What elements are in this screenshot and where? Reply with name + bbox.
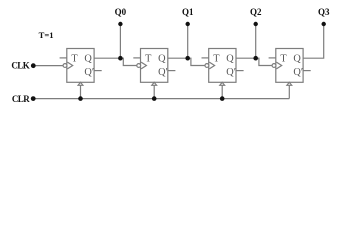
svg-text:Q: Q [84, 53, 92, 64]
CLR rail wire [36, 98, 290, 100]
svg-text:T: T [280, 53, 287, 64]
U3 clear triangle [220, 82, 225, 85]
node Q2 junction dot [253, 56, 258, 61]
wire Q1 output to U3 clock [168, 58, 205, 65]
svg-text:Q: Q [226, 53, 234, 64]
node CLR-U1 junction dot [78, 96, 83, 101]
U4 clear branch wire (corner from rail) [288, 85, 290, 98]
svg-text:CLR: CLR [12, 94, 30, 104]
U3 clock bubble [205, 64, 209, 68]
U2 Q' stub [168, 70, 176, 72]
U3 clear branch wire [221, 85, 223, 98]
svg-text:T: T [213, 53, 220, 64]
flip-flop U4 box [276, 49, 303, 83]
U2 clear triangle [152, 82, 157, 85]
node Q2 terminal dot [254, 22, 258, 26]
U1 clear triangle [78, 82, 83, 85]
wire Q0 output to U2 clock [94, 58, 137, 65]
svg-text:T=1: T=1 [39, 30, 54, 40]
U1 clock bubble [63, 64, 67, 68]
svg-text:CLK: CLK [11, 60, 29, 70]
U4 clock bubble [272, 64, 276, 68]
U3 T input stub [202, 57, 209, 59]
svg-text:Q: Q [293, 53, 301, 64]
CLK input wire [36, 65, 64, 67]
U1 clock edge triangle [67, 62, 72, 69]
U4 clock edge triangle [276, 62, 281, 69]
node Q1 terminal dot [186, 22, 190, 26]
svg-text:Q0: Q0 [115, 7, 127, 17]
U4 clear triangle [287, 82, 292, 85]
CLR source bullet [31, 96, 36, 101]
node Q3 terminal dot [322, 22, 326, 26]
svg-text:T: T [71, 53, 78, 64]
wire Q1 tap vertical [187, 24, 189, 58]
node CLR-U3 junction dot [220, 96, 225, 101]
node CLR-U2 junction dot [152, 96, 157, 101]
svg-text:Q′: Q′ [84, 67, 94, 78]
CLK source bullet [31, 63, 36, 68]
svg-text:Q′: Q′ [158, 67, 168, 78]
U2 T input stub [133, 57, 140, 59]
wire Q2 output to U4 clock [236, 58, 272, 65]
U1 clear branch wire [80, 85, 82, 98]
wire Q3 output up to terminal [303, 24, 324, 58]
svg-text:Q3: Q3 [318, 7, 330, 17]
svg-text:Q1: Q1 [182, 7, 194, 17]
U2 clock bubble [137, 64, 141, 68]
node Q0 junction dot [118, 56, 123, 61]
svg-text:Q2: Q2 [250, 7, 262, 17]
wire Q0 tap vertical [119, 24, 121, 58]
node Q1 junction dot [185, 56, 190, 61]
U1 Q' stub [94, 70, 102, 72]
U4 T input stub [269, 57, 276, 59]
U4 Q' stub [303, 70, 311, 72]
flip-flop U3 box [209, 49, 236, 83]
wire Q2 tap vertical [255, 24, 257, 58]
svg-text:Q′: Q′ [226, 67, 236, 78]
U3 Q' stub [236, 70, 244, 72]
U3 clock edge triangle [209, 62, 214, 69]
flip-flop U2 box [141, 49, 168, 83]
U2 clock edge triangle [141, 62, 146, 69]
node Q0 terminal dot [118, 22, 122, 26]
svg-text:Q: Q [158, 53, 166, 64]
svg-text:Q′: Q′ [293, 67, 303, 78]
U2 clear branch wire [153, 85, 155, 98]
svg-text:T: T [145, 53, 152, 64]
flip-flop U1 box [67, 49, 94, 83]
U1 T input stub [60, 57, 67, 59]
